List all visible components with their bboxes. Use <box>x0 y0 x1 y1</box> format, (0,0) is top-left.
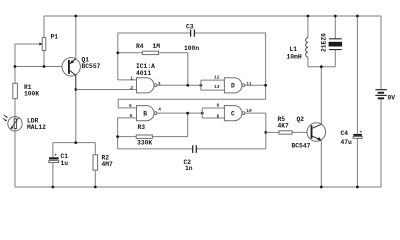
node junction R4 left on feedback line <box>116 51 119 54</box>
node junction C4 at ground rail <box>356 186 359 189</box>
svg-text:MAL12: MAL12 <box>27 124 46 131</box>
wire top supply rail <box>44 15 381 17</box>
wire gate A pin 2 <box>76 89 137 91</box>
node junction R2 at ground rail <box>94 186 97 189</box>
node junction R4 right on output <box>186 84 189 87</box>
gate B (4011 NAND) <box>129 103 161 121</box>
svg-text:12: 12 <box>214 75 220 81</box>
wire feedback to gate B pin 5 <box>118 99 265 108</box>
svg-text:9V: 9V <box>388 95 396 102</box>
node junction collector-pin2 <box>74 88 77 91</box>
resistor R5 4K7 <box>266 116 311 134</box>
node junction left rail-base <box>14 65 17 68</box>
transistor Q2 BC547 <box>292 116 326 150</box>
svg-text:+: + <box>360 130 363 135</box>
gate D (4011 NAND) <box>214 75 252 93</box>
node junction R3 right on B output <box>186 112 189 115</box>
svg-text:C: C <box>231 111 235 118</box>
svg-text:BC557: BC557 <box>82 63 101 70</box>
svg-text:D: D <box>231 83 235 90</box>
wire C2 run <box>118 148 266 150</box>
wire C3 feedback top run <box>118 33 266 99</box>
svg-text:4M7: 4M7 <box>102 161 114 168</box>
svg-text:Q2: Q2 <box>297 116 305 123</box>
node junction L1 on top rail <box>307 15 310 18</box>
resistor R4 1M <box>118 43 188 86</box>
svg-text:1M: 1M <box>153 43 161 50</box>
svg-text:R4: R4 <box>136 43 144 50</box>
piezo transducer 21EZ6 <box>321 16 343 67</box>
svg-text:2: 2 <box>130 85 133 91</box>
capacitor C2 1n <box>184 145 197 172</box>
node junction Q1 emitter on top rail <box>74 15 77 18</box>
wire gate A pin 1 <box>118 79 137 81</box>
svg-text:IC1:A: IC1:A <box>136 63 155 70</box>
node junction piezo on top rail <box>334 15 337 18</box>
node junction D output / C3 / feedback <box>264 84 267 87</box>
node junction C1 at ground rail <box>52 186 55 189</box>
resistor R3 330K <box>118 113 188 146</box>
svg-text:9: 9 <box>217 103 220 109</box>
wire gate D output <box>245 84 266 86</box>
svg-text:100n: 100n <box>184 45 199 52</box>
node junction P1-base <box>43 65 46 68</box>
node junction C4 on top rail <box>356 15 359 18</box>
svg-text:13: 13 <box>214 84 220 90</box>
svg-text:6: 6 <box>130 113 133 119</box>
node junction Q2 emitter at ground rail <box>320 186 323 189</box>
svg-text:1n: 1n <box>185 165 193 172</box>
resistor R2 4M7 <box>93 143 113 187</box>
node junction R5 tap <box>264 131 267 134</box>
wire Q1 collector down <box>75 90 77 143</box>
node junction gate D input fork <box>200 84 203 87</box>
gate C (4011 NAND) <box>217 103 253 121</box>
svg-text:100K: 100K <box>24 91 39 98</box>
svg-text:BC547: BC547 <box>292 143 311 150</box>
node junction R3 left <box>116 135 119 138</box>
wire wiper of P1 <box>15 43 40 45</box>
wire gate C output down to R5/C2 <box>245 113 266 149</box>
svg-text:1u: 1u <box>61 160 69 167</box>
op IC1 gate A (4011 NAND) <box>130 63 161 93</box>
wire L1/piezo bottom to Q2 collector <box>308 66 335 68</box>
svg-text:21EZ6: 21EZ6 <box>321 33 328 52</box>
wire Q2 collector up <box>320 67 322 125</box>
node junction collector tap <box>320 65 323 68</box>
svg-text:330K: 330K <box>137 140 152 147</box>
svg-text:P1: P1 <box>51 34 59 41</box>
battery 9V <box>375 90 395 102</box>
wire gate B output <box>157 112 202 114</box>
wire collector to C1/R2 <box>53 142 95 144</box>
inductor L1 10mH <box>287 16 308 67</box>
svg-text:4: 4 <box>158 106 161 112</box>
svg-text:11: 11 <box>246 81 252 87</box>
wire right battery rail lower <box>15 99 381 187</box>
svg-text:L1: L1 <box>290 46 298 53</box>
wire Q2 emitter down <box>320 140 322 187</box>
wire base of Q1 <box>15 66 68 68</box>
wire gate A output <box>157 84 201 86</box>
potentiometer P1 <box>42 16 58 67</box>
svg-text:4011: 4011 <box>136 70 151 77</box>
svg-text:5: 5 <box>129 103 132 109</box>
capacitor C4 47u electrolytic <box>341 16 363 187</box>
transistor Q1 BC557 <box>62 16 101 90</box>
resistor R1 100K <box>13 83 40 98</box>
svg-text:C1: C1 <box>61 153 69 160</box>
LDR MAL12 <box>3 115 46 131</box>
wire left rail (wiper to ground) <box>14 44 16 187</box>
svg-text:3: 3 <box>158 81 161 87</box>
capacitor C3 100n <box>184 23 199 52</box>
capacitor C1 1u electrolytic <box>49 143 68 187</box>
svg-text:C3: C3 <box>186 23 194 30</box>
node junction gate C input fork <box>201 112 204 115</box>
node junction at C1/R2 wire <box>74 141 77 144</box>
wire right battery rail upper <box>380 16 382 89</box>
svg-text:10mH: 10mH <box>287 53 302 60</box>
svg-text:1: 1 <box>130 76 133 82</box>
wire gate D input fork <box>201 80 225 90</box>
svg-text:R3: R3 <box>138 124 146 131</box>
svg-text:8: 8 <box>217 113 220 119</box>
svg-text:47u: 47u <box>341 139 353 146</box>
svg-text:+: + <box>54 154 57 159</box>
svg-text:B: B <box>143 111 147 118</box>
svg-text:4K7: 4K7 <box>278 122 290 129</box>
svg-text:C4: C4 <box>341 130 349 137</box>
wire gate C input fork <box>202 108 224 118</box>
wire gate B pin 6 and down to R3/C2 <box>118 118 137 149</box>
